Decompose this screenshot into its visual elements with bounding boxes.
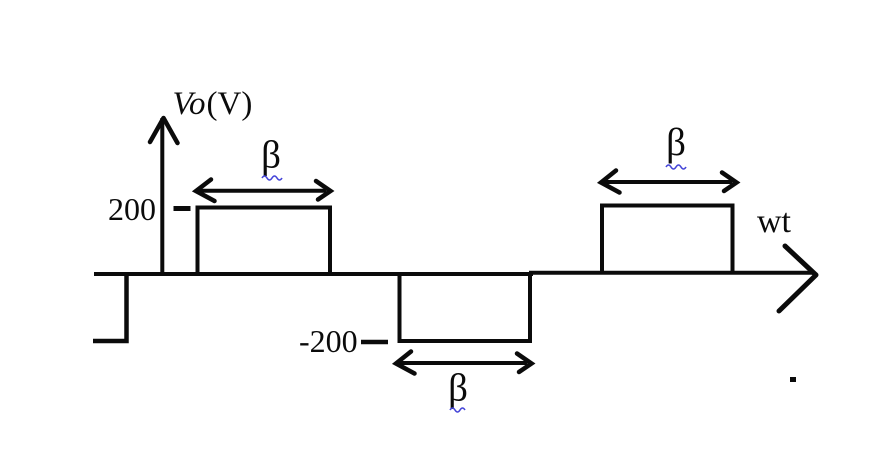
- svg-text:Vo(V): Vo(V): [173, 86, 253, 122]
- beta 3 width arrow: [605, 180, 732, 184]
- svg-text:β: β: [448, 367, 468, 410]
- squiggle under beta 3: [666, 165, 686, 169]
- svg-text:200: 200: [108, 191, 156, 227]
- beta 2 width arrow: [400, 361, 527, 365]
- squiggle under beta 1: [262, 176, 282, 180]
- wire: horizontal time axis: [94, 273, 813, 274]
- wire: vertical Vo axis: [160, 118, 164, 274]
- pulse 3 (positive): [602, 206, 733, 274]
- svg-text:β: β: [666, 121, 686, 164]
- svg-text:wt: wt: [757, 203, 792, 240]
- svg-text:β: β: [261, 134, 281, 177]
- stray dot bottom right: [790, 377, 796, 382]
- axis arrowhead (wt axis, hand-drawn chevron): [779, 246, 816, 311]
- Vo axis arrowhead: [150, 118, 178, 143]
- tick dash at -200 level: [361, 340, 388, 345]
- tick dash at 200 level: [174, 206, 191, 211]
- pulse 2 (negative): [400, 273, 531, 341]
- pulse 1 (positive): [198, 208, 331, 273]
- svg-text:-200: -200: [299, 323, 358, 359]
- squiggle under beta 2: [450, 408, 465, 412]
- beta 1 width arrow: [200, 189, 326, 193]
- wire: left step below axis: [93, 273, 127, 341]
